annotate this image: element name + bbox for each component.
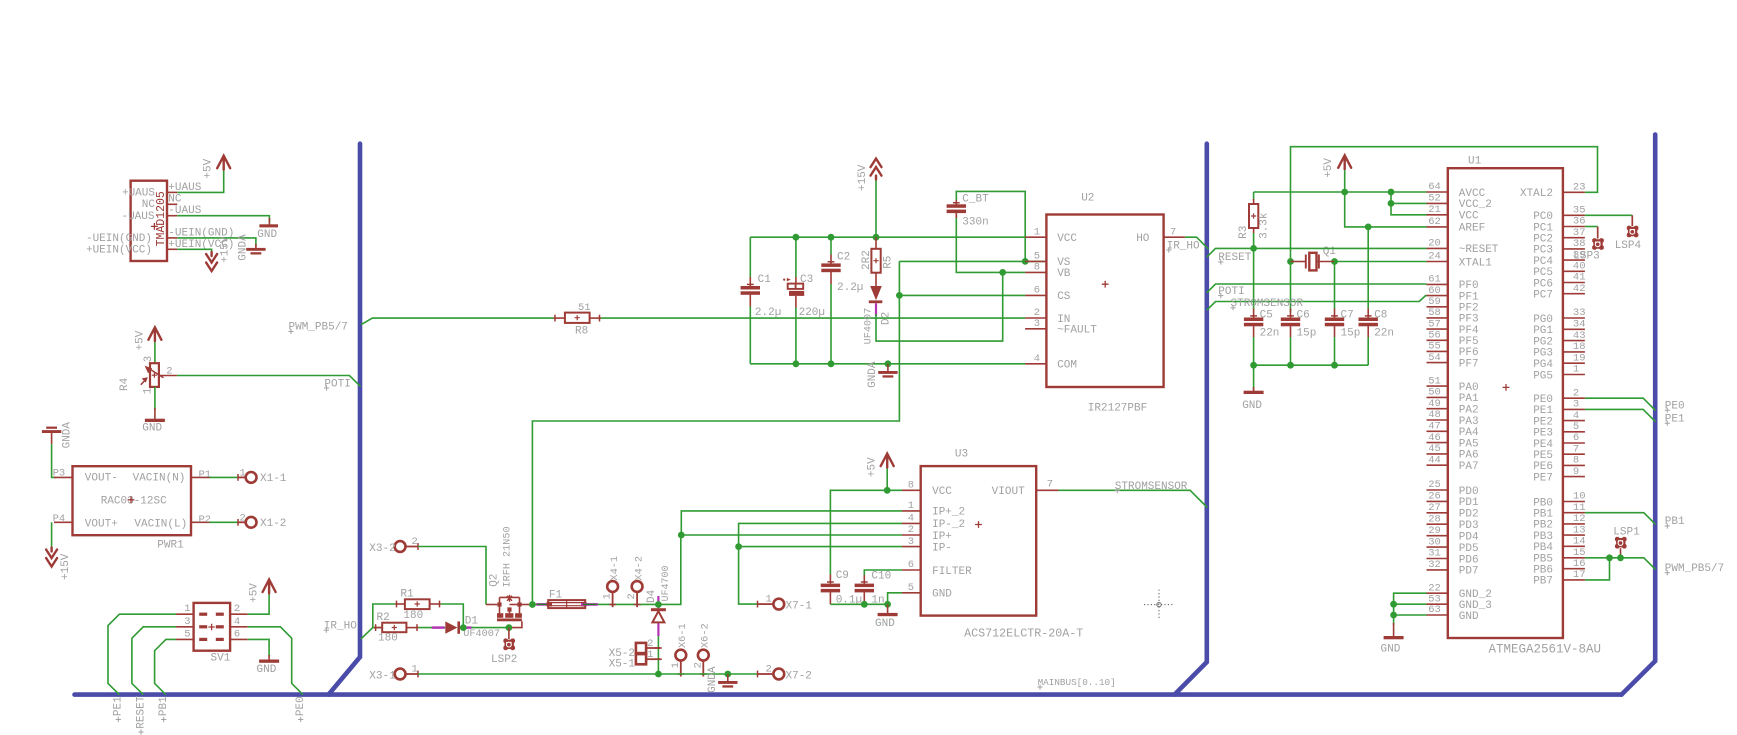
wire SV1 pin2 to +5V	[248, 595, 269, 615]
svg-text:VOUT+: VOUT+	[85, 518, 118, 530]
svg-text:62: 62	[1428, 216, 1441, 228]
svg-text:2: 2	[240, 512, 246, 524]
connector pad X5-1	[636, 654, 646, 664]
junction CS	[896, 292, 903, 299]
svg-text:PA2: PA2	[1459, 405, 1479, 417]
svg-text:C5: C5	[1260, 309, 1273, 321]
svg-text:GND: GND	[1381, 644, 1401, 656]
svg-text:4: 4	[908, 513, 914, 525]
svg-text:PG0: PG0	[1533, 314, 1553, 326]
svg-text:11: 11	[1573, 502, 1586, 514]
svg-text:3: 3	[143, 356, 155, 363]
svg-text:2: 2	[1573, 387, 1579, 399]
wire VS row	[899, 260, 1046, 262]
wire +UAUS to +5V	[177, 171, 223, 193]
svg-text:44: 44	[1428, 454, 1441, 466]
svg-text:PB6: PB6	[1533, 565, 1553, 577]
svg-text:2: 2	[234, 603, 240, 615]
svg-text:X5-1: X5-1	[609, 658, 636, 670]
svg-text:1: 1	[143, 387, 155, 394]
svg-text:C6: C6	[1297, 309, 1310, 321]
wire SV1 pin6 to GND	[248, 639, 269, 656]
svg-text:X4-2: X4-2	[633, 556, 645, 581]
svg-text:STROMSENSOR: STROMSENSOR	[1231, 298, 1304, 310]
junction LSP1 PB5	[1617, 554, 1624, 561]
svg-text:FILTER: FILTER	[932, 566, 972, 578]
svg-text:LSP1: LSP1	[1613, 526, 1640, 538]
power module TMAD1205	[131, 181, 167, 261]
svg-text:PG3: PG3	[1533, 348, 1553, 360]
connector pad X6-1	[675, 650, 686, 661]
resistor R3 3.3k	[1253, 192, 1255, 200]
svg-text:3: 3	[184, 616, 190, 628]
current sensor U3 ACS712ELCTR-20A-T	[921, 466, 1036, 615]
svg-text:51: 51	[1428, 375, 1441, 387]
bus MAINBUS bottom segment	[75, 692, 1622, 697]
svg-text:+UAUS: +UAUS	[122, 188, 155, 200]
svg-text:2: 2	[908, 524, 914, 536]
junction IP+	[678, 532, 685, 539]
svg-text:R2: R2	[377, 612, 390, 624]
junction D4 anode wire	[655, 601, 662, 608]
svg-text:X4-1: X4-1	[609, 556, 621, 581]
transistor Q2 IRFH 21N50	[486, 604, 497, 606]
wire U1 GND pins	[1394, 593, 1427, 625]
svg-text:X3-2: X3-2	[369, 543, 395, 555]
svg-text:VCC: VCC	[1459, 211, 1479, 223]
wire PB5 PWM to bus	[1585, 558, 1656, 570]
svg-text:5: 5	[1573, 421, 1579, 433]
wire D4 to X3-1 row	[657, 622, 659, 674]
wire X3-2 to Q2 gate	[418, 547, 486, 605]
svg-text:15p: 15p	[1297, 328, 1317, 340]
capacitor C8	[1367, 309, 1369, 318]
junction cap GND row	[1287, 362, 1294, 369]
svg-text:PE2: PE2	[1533, 416, 1553, 428]
ground GNDA at TMAD1205	[255, 244, 257, 249]
svg-text:330n: 330n	[962, 217, 988, 229]
wire SV1 pin3 to bus RESET	[132, 627, 176, 695]
svg-text:VCC_2: VCC_2	[1459, 199, 1492, 211]
svg-text:45: 45	[1428, 443, 1441, 455]
svg-text:PA5: PA5	[1459, 438, 1479, 450]
wire R2 to D1	[418, 627, 445, 629]
junction PB7 PB5	[1606, 554, 1613, 561]
svg-text:PG1: PG1	[1533, 325, 1553, 337]
svg-text:1: 1	[184, 603, 190, 615]
svg-text:+5V: +5V	[1323, 158, 1335, 178]
svg-text:PG5: PG5	[1533, 370, 1553, 382]
bus MAINBUS left segment	[329, 144, 361, 695]
svg-text:52: 52	[1428, 193, 1441, 205]
microcontroller U1 ATMEGA2561V-8AU	[1448, 168, 1563, 638]
junction XTAL1 Q1 right	[1331, 258, 1338, 265]
svg-text:+5V: +5V	[248, 583, 260, 603]
svg-text:IR_HO: IR_HO	[1167, 240, 1200, 252]
junction U3 VCC	[884, 487, 891, 494]
svg-text:PC7: PC7	[1533, 290, 1553, 302]
svg-text:43: 43	[1573, 330, 1586, 342]
svg-text:C2: C2	[837, 251, 850, 263]
svg-text:LSP3: LSP3	[1573, 250, 1599, 262]
svg-text:4: 4	[1034, 353, 1040, 365]
svg-text:16: 16	[1573, 558, 1586, 570]
svg-text:PG4: PG4	[1533, 359, 1553, 371]
connector pad X3-1	[395, 669, 406, 680]
svg-text:PD2: PD2	[1459, 509, 1479, 521]
svg-text:D4: D4	[646, 589, 658, 603]
svg-text:64: 64	[1428, 181, 1441, 193]
junction VCC row	[793, 234, 800, 241]
junction D1 cathode	[460, 624, 467, 631]
supply +5V at TMAD1205	[217, 156, 230, 170]
svg-text:C7: C7	[1341, 309, 1354, 321]
junction VS	[1022, 258, 1029, 265]
svg-text:PA7: PA7	[1459, 461, 1479, 473]
capacitor C9	[829, 575, 831, 584]
capacitor C3 polarized	[795, 237, 797, 277]
svg-text:PC3: PC3	[1533, 245, 1553, 257]
wire cap GND row	[1254, 364, 1369, 366]
U1 pins right	[1563, 191, 1585, 193]
svg-text:26: 26	[1428, 491, 1441, 503]
supply +15V at PWR1	[46, 548, 57, 567]
svg-text:47: 47	[1428, 421, 1441, 433]
svg-text:PF3: PF3	[1459, 314, 1479, 326]
svg-text:35: 35	[1573, 205, 1586, 217]
svg-text:4: 4	[234, 616, 240, 628]
svg-text:SV1: SV1	[211, 653, 231, 665]
wire C9 C10 GND row	[830, 603, 887, 605]
svg-text:GND: GND	[257, 229, 277, 241]
connector pad X3-2	[395, 541, 406, 552]
svg-text:PC4: PC4	[1533, 256, 1553, 268]
svg-text:180: 180	[378, 633, 398, 645]
svg-text:6: 6	[1573, 432, 1579, 444]
svg-text:PE0: PE0	[1533, 394, 1553, 406]
svg-text:GND: GND	[875, 618, 895, 630]
ground GND at C5	[1253, 365, 1255, 389]
junction VB	[999, 269, 1006, 276]
svg-text:ACS712ELCTR-20A-T: ACS712ELCTR-20A-T	[964, 627, 1083, 641]
svg-text:X3-1: X3-1	[369, 671, 396, 683]
svg-text:U2: U2	[1081, 192, 1094, 204]
junction VCC tie	[1388, 189, 1395, 196]
svg-text:1: 1	[412, 664, 418, 676]
svg-text:PA4: PA4	[1459, 427, 1479, 439]
svg-text:36: 36	[1573, 216, 1586, 228]
wire R3 to RESET to C5	[1253, 233, 1255, 309]
svg-text:GND: GND	[142, 423, 162, 435]
svg-text:PA0: PA0	[1459, 382, 1479, 394]
svg-text:2: 2	[412, 536, 418, 548]
wire X3-1 GNDA row	[418, 673, 758, 675]
wire U3 GND pin down	[888, 593, 902, 605]
capacitor C1	[749, 237, 751, 277]
svg-text:-UAUS: -UAUS	[121, 211, 154, 223]
svg-text:3.3k: 3.3k	[1258, 212, 1270, 239]
pin header SV1	[194, 603, 231, 651]
svg-text:27: 27	[1428, 502, 1441, 514]
svg-text:IP+: IP+	[932, 531, 952, 543]
svg-text:48: 48	[1428, 409, 1441, 421]
wire -UEIN(GND) to GNDA	[177, 238, 256, 247]
svg-text:R3: R3	[1238, 226, 1250, 239]
wire GNDA to P3	[52, 444, 56, 477]
wire PWM_PB5/7 to R8	[361, 318, 554, 325]
svg-text:6: 6	[234, 628, 240, 640]
junction AVCC +5V	[1341, 189, 1348, 196]
ground GNDA at U2 COM	[887, 364, 889, 372]
svg-text:GNDA: GNDA	[707, 666, 719, 693]
svg-text:COM: COM	[1057, 360, 1077, 372]
svg-text:61: 61	[1428, 274, 1441, 286]
svg-text:10: 10	[1573, 491, 1586, 503]
svg-text:XTAL2: XTAL2	[1520, 188, 1553, 200]
capacitor C6	[1290, 309, 1292, 318]
svg-text:6: 6	[908, 559, 914, 571]
capacitor C_BT	[956, 213, 1025, 272]
connector pad X7-2	[757, 671, 759, 678]
svg-text:PA3: PA3	[1459, 416, 1479, 428]
svg-text:PF4: PF4	[1459, 325, 1479, 337]
svg-text:29: 29	[1428, 525, 1441, 537]
PWR1 pins	[54, 476, 73, 478]
svg-text:GNDA: GNDA	[238, 234, 250, 261]
svg-text:LSP4: LSP4	[1615, 240, 1642, 252]
svg-text:IP-_2: IP-_2	[932, 519, 965, 531]
wire U3 VCC to C9	[830, 490, 902, 574]
svg-text:PD6: PD6	[1459, 554, 1479, 566]
R4 pin 2 lead	[159, 375, 177, 377]
svg-text:1: 1	[240, 467, 246, 479]
svg-text:PF0: PF0	[1459, 280, 1479, 292]
svg-text:2: 2	[766, 663, 772, 675]
connector pad X1-2	[237, 519, 239, 526]
svg-text:1: 1	[602, 593, 614, 599]
wire AREF to C8	[1367, 227, 1369, 309]
svg-text:TMAD1205: TMAD1205	[155, 191, 168, 246]
svg-text:8: 8	[1034, 262, 1040, 274]
svg-text:C9: C9	[836, 570, 849, 582]
ground GNDA at X7	[724, 671, 731, 678]
svg-text:PC2: PC2	[1533, 234, 1553, 246]
svg-text:U1: U1	[1468, 156, 1482, 168]
svg-text:X6-1: X6-1	[677, 623, 689, 648]
svg-text:22n: 22n	[1374, 328, 1394, 340]
wire +UEIN(VCC) to +15V	[177, 249, 211, 252]
wire VS sense down to drain	[532, 261, 899, 604]
svg-text:PE5: PE5	[1533, 450, 1553, 462]
wire PB1 to bus	[1585, 513, 1656, 525]
connector pad X4-1	[607, 581, 618, 592]
wire PB7 tie to PB5	[1585, 558, 1610, 580]
connector pad X4-2	[632, 581, 643, 592]
junction IP-	[735, 543, 742, 550]
svg-text:PC5: PC5	[1533, 267, 1553, 279]
wire IP-_2 and IP-	[739, 523, 902, 546]
svg-text:19: 19	[1573, 352, 1586, 364]
svg-text:PB0: PB0	[1533, 497, 1553, 509]
junction U3 GND	[884, 601, 891, 608]
svg-text:32: 32	[1428, 559, 1441, 571]
svg-text:PWM_PB5/7: PWM_PB5/7	[1665, 563, 1724, 575]
resistor R5 2R2	[875, 237, 877, 249]
svg-text:P3: P3	[53, 467, 66, 479]
svg-text:12: 12	[1573, 513, 1586, 525]
svg-text:GND: GND	[1242, 400, 1262, 412]
wire R1 branch	[373, 604, 395, 628]
svg-text:GNDA: GNDA	[61, 422, 73, 449]
svg-text:2.2µ: 2.2µ	[755, 307, 781, 319]
svg-text:PE4: PE4	[1533, 439, 1553, 451]
svg-text:1: 1	[1034, 226, 1040, 238]
svg-text:+15V: +15V	[857, 164, 869, 191]
supply +5V at U3	[881, 454, 894, 468]
supply +15V at TMAD1205	[206, 252, 217, 271]
svg-text:VCC: VCC	[1057, 233, 1077, 245]
junction C10 bottom	[861, 601, 868, 608]
svg-text:41: 41	[1573, 272, 1586, 284]
supply +5V at U1	[1338, 155, 1351, 169]
svg-text:C1: C1	[758, 274, 772, 286]
svg-text:38: 38	[1573, 238, 1586, 250]
svg-text:1: 1	[908, 500, 914, 512]
svg-text:46: 46	[1428, 432, 1441, 444]
svg-text:MAINBUS[0..10]: MAINBUS[0..10]	[1038, 677, 1116, 688]
svg-text:+5V: +5V	[203, 158, 215, 178]
svg-text:17: 17	[1573, 569, 1586, 581]
svg-text:PD5: PD5	[1459, 543, 1479, 555]
svg-text:U3: U3	[955, 449, 968, 461]
wire R1 to D1 node	[441, 604, 464, 628]
wire D1 to Q2 source	[460, 627, 509, 629]
svg-text:7: 7	[1573, 443, 1579, 455]
svg-text:34: 34	[1573, 319, 1586, 331]
svg-text:VOUT-: VOUT-	[85, 472, 118, 484]
wire PC0 to LSP4	[1585, 214, 1632, 216]
wire -UAUS to GND	[177, 216, 269, 223]
svg-text:1: 1	[670, 662, 682, 668]
diode D4 UF4700	[657, 596, 659, 608]
wire +5V to U3 VCC	[886, 469, 888, 491]
svg-text:~FAULT: ~FAULT	[1057, 325, 1097, 337]
wire PC1 to LSP3	[1585, 226, 1598, 228]
wire PE1 to bus	[1585, 409, 1656, 421]
svg-text:4: 4	[1573, 410, 1579, 422]
wire P1 to X1-1	[210, 476, 239, 478]
svg-text:PE7: PE7	[1533, 472, 1553, 484]
svg-text:42: 42	[1573, 283, 1586, 295]
svg-text:IRFH 21N50: IRFH 21N50	[502, 526, 513, 587]
junction D4 bottom	[655, 671, 662, 678]
junction COM row	[793, 360, 800, 367]
svg-text:Q2: Q2	[488, 574, 500, 587]
svg-text:3: 3	[908, 536, 914, 548]
svg-text:63: 63	[1428, 604, 1441, 616]
wire C10 to FILTER	[864, 570, 902, 575]
wire IR_HO to bus	[1185, 237, 1209, 249]
svg-text:PE1: PE1	[113, 696, 125, 716]
resistor R1 180	[396, 601, 398, 608]
resistor R8	[554, 315, 556, 322]
svg-text:STROMSENSOR: STROMSENSOR	[1115, 481, 1188, 493]
wire XTAL1 C7	[1334, 262, 1336, 310]
svg-text:2.2µ: 2.2µ	[837, 282, 863, 294]
svg-text:1: 1	[647, 649, 653, 661]
svg-text:51: 51	[578, 302, 591, 314]
svg-text:RESET: RESET	[135, 695, 147, 728]
svg-text:20: 20	[1428, 238, 1441, 250]
ground GND at SV1	[268, 655, 270, 662]
svg-text:CS: CS	[1057, 291, 1071, 303]
svg-text:F1: F1	[549, 590, 563, 602]
svg-text:AVCC: AVCC	[1459, 188, 1486, 200]
wire +5V to AVCC AREF	[1345, 170, 1427, 227]
svg-text:VACIN(N): VACIN(N)	[133, 472, 186, 484]
svg-text:AREF: AREF	[1459, 223, 1485, 235]
svg-text:+5V: +5V	[866, 457, 878, 477]
connector pad X7-1	[757, 601, 759, 608]
svg-text:220µ: 220µ	[799, 307, 825, 319]
wire CS row	[899, 294, 1025, 296]
wire VCC_2 VCC tie	[1391, 192, 1427, 203]
svg-text:PC1: PC1	[1533, 222, 1553, 234]
svg-text:PC6: PC6	[1533, 278, 1553, 290]
capacitor C10	[863, 575, 865, 584]
wire SV1 pin4 to bus PE0	[248, 627, 303, 695]
svg-text:3: 3	[1573, 399, 1579, 411]
svg-text:R4: R4	[119, 377, 131, 391]
svg-text:180: 180	[403, 610, 423, 622]
svg-text:PE6: PE6	[1533, 461, 1553, 473]
wire POTI from R4	[177, 376, 361, 387]
svg-text:PB3: PB3	[1533, 531, 1553, 543]
junction AREF C8	[1365, 224, 1372, 231]
wire +5V to R4 pin 3	[154, 342, 156, 363]
svg-text:PB1: PB1	[1533, 509, 1553, 521]
svg-text:HO: HO	[1136, 233, 1150, 245]
svg-text:X6-2: X6-2	[700, 623, 712, 648]
svg-text:15p: 15p	[1341, 328, 1361, 340]
svg-text:18: 18	[1573, 341, 1586, 353]
svg-text:X7-1: X7-1	[786, 601, 813, 613]
svg-text:PWR1: PWR1	[157, 540, 184, 552]
TMAD1205 pins	[167, 191, 177, 193]
svg-text:50: 50	[1428, 387, 1441, 399]
svg-text:55: 55	[1428, 341, 1441, 353]
wire X7-1 to U3 IP-	[739, 547, 758, 605]
wire R8 to U2 IN	[601, 317, 1025, 319]
svg-text:ATMEGA2561V-8AU: ATMEGA2561V-8AU	[1489, 642, 1602, 656]
ground GND at TMAD1205	[268, 218, 270, 226]
wire C_BT to VS	[956, 191, 1025, 261]
capacitor C5	[1253, 309, 1255, 318]
bus MAINBUS right segment	[1622, 135, 1656, 695]
svg-text:LSP2: LSP2	[491, 654, 517, 666]
svg-text:2: 2	[647, 638, 653, 650]
SV1 pins	[176, 613, 194, 615]
svg-text:2: 2	[626, 593, 638, 599]
svg-text:D2: D2	[880, 312, 892, 325]
wire P2 to X1-2	[210, 521, 239, 523]
capacitor C2	[830, 237, 832, 255]
svg-text:6: 6	[1034, 285, 1040, 297]
svg-text:8: 8	[1573, 455, 1579, 467]
svg-text:21: 21	[1428, 204, 1441, 216]
svg-text:5: 5	[908, 582, 914, 594]
wire SV1 pin5 to bus PB1	[155, 639, 176, 694]
